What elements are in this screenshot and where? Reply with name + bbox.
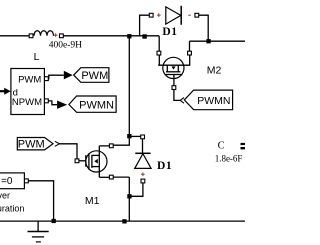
svg-text:figuration: figuration bbox=[0, 204, 24, 214]
svg-text:D1: D1 bbox=[162, 26, 177, 38]
svg-text:PWMN: PWMN bbox=[197, 95, 230, 107]
svg-text:1.8e-6F: 1.8e-6F bbox=[215, 153, 243, 163]
svg-text:400e-9H: 400e-9H bbox=[49, 41, 82, 51]
svg-text:M1: M1 bbox=[85, 195, 100, 207]
svg-text:PWMN: PWMN bbox=[79, 99, 114, 111]
svg-text:PWM: PWM bbox=[18, 75, 41, 86]
svg-text:NPWM: NPWM bbox=[12, 97, 42, 108]
svg-text:L: L bbox=[34, 51, 40, 63]
svg-text:M2: M2 bbox=[207, 64, 222, 76]
svg-text:=0: =0 bbox=[1, 176, 13, 187]
svg-text:C: C bbox=[218, 140, 225, 151]
svg-text:Solver: Solver bbox=[0, 191, 10, 201]
svg-text:PWM: PWM bbox=[81, 70, 108, 82]
svg-text:D1: D1 bbox=[157, 160, 172, 172]
svg-text:PWM: PWM bbox=[18, 139, 45, 151]
